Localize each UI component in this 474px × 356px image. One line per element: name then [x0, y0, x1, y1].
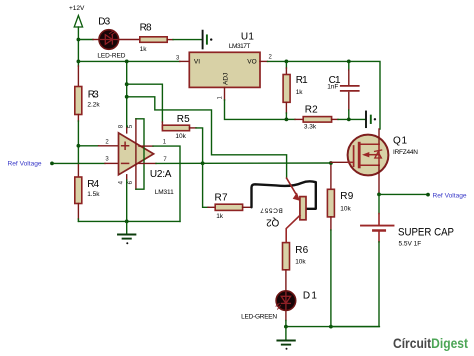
node pin2 [77, 144, 81, 148]
wire q2 base black loop [252, 181, 316, 208]
svg-text:1nF: 1nF [327, 84, 338, 91]
node vi-tap [125, 60, 129, 64]
svg-text:VO: VO [247, 58, 256, 65]
svg-text:1k: 1k [140, 46, 148, 53]
svg-text:R2: R2 [305, 105, 318, 116]
svg-text:10k: 10k [175, 133, 186, 140]
svg-text:LED-RED: LED-RED [97, 52, 125, 59]
wire vi row [78, 60, 179, 62]
wire to q2 emitter staircase [127, 97, 287, 178]
svg-text:R8: R8 [140, 22, 152, 33]
transistor Q2 BC557 [260, 178, 306, 242]
node c1 bottom [347, 118, 351, 122]
svg-text:R9: R9 [340, 191, 353, 202]
svg-text:1k: 1k [296, 89, 304, 96]
resistor R6 [283, 243, 309, 270]
node r9 gnd [329, 325, 333, 329]
node out-r5r7 [201, 161, 205, 165]
svg-text:LED-GREEN: LED-GREEN [241, 313, 277, 320]
resistor R1 [283, 61, 308, 119]
battery BT2 [366, 112, 376, 128]
node source [377, 193, 381, 197]
svg-text:10k: 10k [295, 258, 306, 265]
capacitor C1 [327, 61, 359, 119]
regulator U1 LM317T [189, 32, 260, 88]
wire r2 row [286, 118, 295, 120]
node r2 left [285, 118, 289, 122]
svg-text:1k: 1k [216, 213, 224, 220]
wire gate stub [331, 161, 348, 163]
ground bus left [78, 220, 180, 222]
svg-text:LM317T: LM317T [229, 43, 251, 50]
svg-text:5.5V 1F: 5.5V 1F [399, 240, 422, 247]
ground symbol left [118, 221, 135, 244]
wire opamp pin4 down [126, 175, 128, 180]
wire left rail [77, 40, 79, 67]
LED D1 [241, 291, 317, 321]
wire d3-r8 [119, 39, 140, 41]
svg-text:LM311: LM311 [155, 189, 174, 196]
wire led row [78, 39, 93, 41]
svg-text:SUPER CAP: SUPER CAP [398, 227, 454, 239]
svg-text:Ref Voltage: Ref Voltage [433, 193, 467, 200]
svg-text:R1: R1 [296, 75, 308, 86]
svg-text:U2:A: U2:A [150, 169, 172, 180]
svg-text:1.5k: 1.5k [87, 191, 100, 198]
svg-text:D1: D1 [303, 291, 317, 302]
node vo [285, 60, 289, 64]
mosfet Q1 IRFZ44N [348, 135, 419, 176]
wire rail pin2-pin3 [77, 146, 79, 164]
node gate [329, 161, 333, 165]
svg-text:Ref Voltage: Ref Voltage [8, 160, 42, 167]
resistor R5 [162, 114, 190, 140]
node q2 emitter tap [125, 95, 129, 99]
wire vo [260, 60, 268, 62]
wire top rail [286, 61, 380, 129]
node r5 tap [125, 82, 129, 86]
balance loop rect [136, 119, 144, 189]
resistor R9 [327, 163, 353, 327]
ground bus bottom [286, 326, 380, 328]
svg-text:R4: R4 [87, 179, 99, 190]
wire supercap to gnd [331, 242, 379, 327]
svg-text:Q1: Q1 [393, 135, 407, 146]
svg-text:U1: U1 [241, 32, 254, 43]
svg-text:+12V: +12V [69, 5, 85, 12]
LED D3 [97, 16, 125, 59]
super cap [361, 194, 454, 247]
resistor R2 [303, 105, 331, 131]
battery BT1 [203, 31, 213, 49]
svg-text:R5: R5 [177, 114, 190, 125]
node rail-led [77, 38, 81, 42]
resistor R7 [215, 192, 243, 220]
wire r7 drop [203, 163, 208, 207]
resistor R3 [75, 66, 101, 146]
wire v+ vertical to opamp pin8 [126, 61, 128, 128]
wire pin1 [139, 145, 153, 147]
svg-text:ADJ: ADJ [223, 73, 230, 85]
svg-text:2.2k: 2.2k [87, 102, 100, 109]
svg-text:IRFZ44N: IRFZ44N [393, 149, 418, 156]
svg-text:10k: 10k [340, 206, 351, 213]
wire r5 right [190, 127, 197, 129]
node d1 gnd [284, 325, 288, 329]
ground symbol right [277, 327, 294, 350]
wire pin3 row [54, 162, 106, 164]
wire pin2 row [78, 145, 98, 147]
node gnd left [125, 220, 129, 224]
wire source down [378, 165, 380, 194]
svg-text:3.3k: 3.3k [304, 123, 317, 130]
svg-text:D3: D3 [98, 16, 110, 27]
svg-text:R6: R6 [295, 245, 308, 256]
node c1 top [347, 60, 351, 64]
svg-text:R3: R3 [88, 89, 99, 100]
wire ref voltage right [379, 193, 426, 195]
svg-text:R7: R7 [215, 192, 228, 203]
op-amp U2:A [118, 124, 174, 196]
wire adj [224, 87, 226, 100]
node rail-vi [77, 60, 81, 64]
resistor R8 [140, 22, 168, 52]
wire to R5 [127, 84, 163, 122]
node ref voltage left [8, 160, 54, 167]
svg-text:CírcuitDigest: CírcuitDigest [393, 336, 468, 351]
resistor R4 [75, 163, 100, 221]
wire r8-batt [167, 39, 173, 41]
svg-text:VI: VI [194, 58, 200, 65]
svg-text:Q2: Q2 [266, 217, 279, 228]
svg-text:BC557: BC557 [260, 207, 283, 214]
wire pin7 out [139, 162, 156, 164]
power +12V [69, 5, 85, 39]
wire drain [378, 129, 380, 144]
